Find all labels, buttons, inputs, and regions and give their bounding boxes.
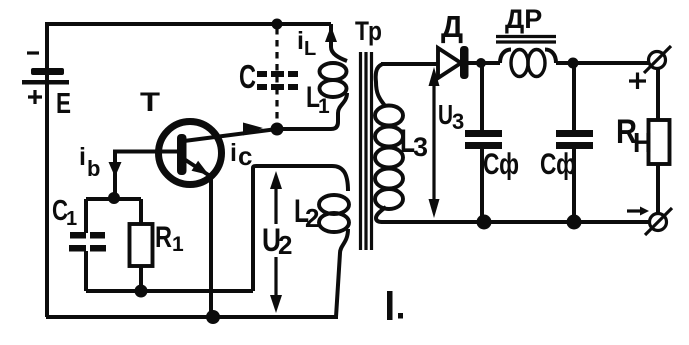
svg-text:Сф: Сф — [483, 148, 519, 181]
svg-text:i: i — [230, 139, 237, 167]
svg-text:2: 2 — [305, 203, 319, 233]
svg-text:2: 2 — [278, 230, 292, 260]
svg-text:1: 1 — [318, 95, 330, 118]
svg-text:R: R — [155, 221, 172, 254]
svg-text:i: i — [297, 27, 304, 55]
svg-text:1: 1 — [172, 233, 184, 256]
svg-text:Сф: Сф — [540, 148, 576, 181]
svg-text:i: i — [79, 143, 86, 171]
svg-text:E: E — [56, 88, 71, 120]
svg-text:Тр: Тр — [355, 16, 382, 46]
svg-text:3: 3 — [413, 132, 428, 162]
svg-text:U: U — [438, 99, 453, 130]
svg-text:T: T — [140, 87, 161, 117]
svg-text:b: b — [87, 156, 100, 181]
svg-text:3: 3 — [452, 109, 464, 134]
svg-text:ДР: ДР — [505, 4, 542, 34]
svg-text:c: c — [238, 141, 252, 171]
svg-text:Д: Д — [441, 9, 463, 44]
svg-text:Н: Н — [633, 127, 652, 158]
svg-text:L: L — [304, 38, 316, 60]
svg-text:1: 1 — [66, 208, 77, 230]
svg-text:C: C — [239, 58, 256, 95]
